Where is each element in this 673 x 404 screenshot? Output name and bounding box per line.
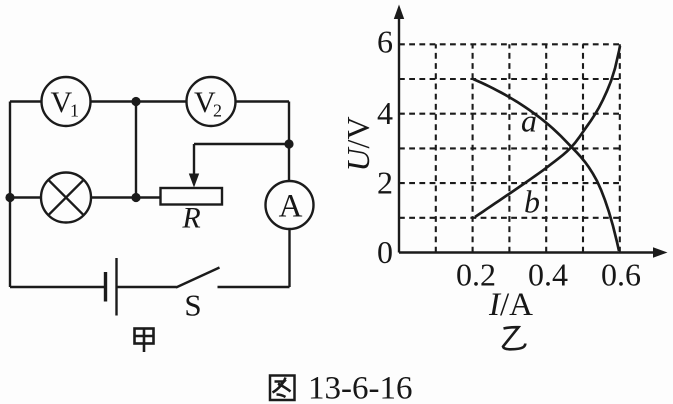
- svg-text:4: 4: [377, 95, 393, 131]
- svg-text:I/A: I/A: [488, 287, 533, 323]
- svg-text:6: 6: [377, 24, 393, 60]
- svg-text:1: 1: [70, 101, 79, 121]
- svg-text:U/V: U/V: [340, 116, 376, 171]
- svg-text:S: S: [184, 288, 201, 323]
- svg-text:0.6: 0.6: [601, 257, 641, 293]
- svg-text:a: a: [521, 103, 537, 139]
- svg-text:13-6-16: 13-6-16: [308, 371, 412, 404]
- svg-text:2: 2: [377, 165, 393, 201]
- svg-text:2: 2: [213, 101, 222, 121]
- svg-text:A: A: [279, 189, 303, 225]
- svg-text:b: b: [524, 184, 540, 220]
- svg-text:0: 0: [377, 234, 393, 270]
- svg-text:0.4: 0.4: [528, 257, 568, 293]
- svg-text:R: R: [181, 202, 200, 235]
